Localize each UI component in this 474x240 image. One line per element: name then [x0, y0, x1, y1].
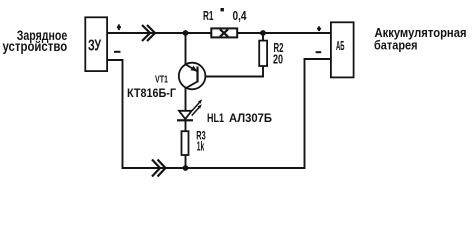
- box AB battery: [331, 22, 354, 77]
- svg-text:VT1: VT1: [155, 74, 168, 86]
- transistor VT1: [179, 63, 206, 90]
- wire collector drop from node A: [185, 33, 187, 64]
- minus sign ZU: [114, 51, 121, 53]
- resistor R2: [259, 41, 267, 66]
- connector X1 chevrons top: [142, 25, 155, 41]
- wire top positive rail: [107, 32, 331, 34]
- plus sign AB: [317, 26, 321, 31]
- svg-text:R1: R1: [203, 9, 214, 23]
- node B junction dot: [260, 30, 266, 36]
- svg-text:0,4: 0,4: [233, 9, 247, 23]
- node C junction dot bottom: [183, 165, 189, 171]
- resistor R1: [211, 28, 237, 37]
- wire R2 drop from node B: [262, 33, 264, 77]
- wire ZU minus lead: [107, 60, 123, 168]
- svg-text:КТ816Б-Г: КТ816Б-Г: [127, 86, 176, 100]
- node A junction dot: [183, 30, 189, 36]
- led HL1: [177, 103, 199, 121]
- connector X2 chevrons bottom: [152, 160, 166, 177]
- led arrow heads: [198, 99, 202, 104]
- wire bottom negative rail: [123, 167, 305, 169]
- wire R3 to bottom rail: [185, 156, 187, 169]
- plus sign ZU: [117, 24, 121, 30]
- svg-text:1k: 1k: [197, 140, 205, 154]
- emitter arrow head PNP: [191, 66, 198, 72]
- svg-text:HL1: HL1: [207, 111, 224, 125]
- wire base lead: [198, 76, 264, 78]
- wire emitter to LED: [185, 88, 187, 111]
- minus sign AB: [316, 51, 322, 53]
- svg-text:ЗУ: ЗУ: [88, 37, 102, 54]
- resistor R3: [182, 131, 189, 155]
- svg-text:устройство: устройство: [3, 39, 68, 54]
- svg-text:20: 20: [273, 51, 283, 66]
- svg-text:АБ: АБ: [336, 39, 345, 53]
- wire LED to R3: [185, 121, 187, 131]
- box ZU charger: [85, 17, 107, 71]
- wire AB minus lead: [305, 59, 332, 168]
- svg-text:АЛ307Б: АЛ307Б: [229, 111, 272, 125]
- svg-text:батарея: батарея: [374, 38, 418, 53]
